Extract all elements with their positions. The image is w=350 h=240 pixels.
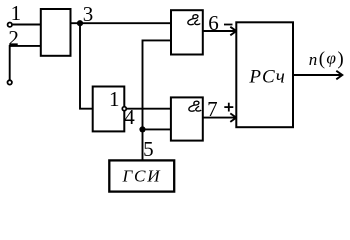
svg-text:РСч: РСч [248,66,285,87]
wire output 6 to counter [203,30,236,32]
svg-text:ГСИ: ГСИ [121,167,161,186]
svg-text:n(φ): n(φ) [309,49,345,70]
AND gate D1 [171,10,203,54]
svg-text:1: 1 [11,1,22,25]
AND gate D3 [171,97,203,140]
inversion bubble on D2 output [122,107,126,111]
wire terminal2 to U1 [10,46,41,80]
wire terminal1 to U1 [13,24,41,26]
wire node4 to AND D3 [127,108,171,110]
reversible counter RSch [236,22,293,127]
svg-text:5: 5 [143,137,154,161]
arrowhead wire 7 [230,113,236,122]
pulse generator GSI [109,160,174,191]
wire counter output n(phi) [293,74,342,76]
arrowhead wire 6 [230,27,236,36]
wire node3 down to inverter D2 [80,23,93,109]
svg-text:1: 1 [109,87,120,111]
minus sign at counter down input [224,24,233,26]
node 3 junction dot [77,20,83,26]
wire GSI riser to AND D1 second input [143,40,172,160]
svg-text:3: 3 [83,2,94,26]
plus sign at counter up input [224,106,233,108]
node 5 junction dot [139,126,145,132]
arrowhead output [336,71,342,80]
inverter D2 [93,87,125,132]
wire junction to AND D3 second input [143,128,172,130]
input terminal 2 [8,80,12,84]
ampersand D1 [188,15,200,25]
svg-text:7: 7 [207,97,218,121]
wire U1 output to AND D1 (node 3 net) [71,22,172,24]
shaper U1 [41,9,71,56]
ampersand D3 [189,101,201,111]
svg-text:6: 6 [208,11,219,35]
input terminal 1 [8,23,12,27]
wire output 7 to counter [203,117,236,119]
